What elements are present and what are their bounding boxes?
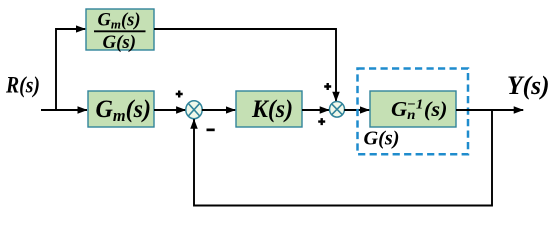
summing junction 1: [186, 101, 202, 119]
block Gm(s): [88, 91, 154, 127]
wire summing junction 1 to K(s): [202, 109, 236, 111]
svg-text:K(s): K(s): [251, 96, 293, 123]
svg-text:Y(s): Y(s): [507, 71, 550, 100]
block K(s): [236, 91, 302, 127]
minus sign at summing junction 1: [207, 129, 215, 132]
wire feedforward block to summing junction 2: [154, 29, 336, 101]
summing junction 2: [330, 102, 345, 118]
plus sign below-left summing junction 2: [318, 118, 325, 125]
wire summing junction 2 to Gn^-1(s): [344, 109, 369, 111]
block Gn^-1(s): [370, 91, 456, 127]
wire input R(s) to Gm(s): [41, 109, 87, 111]
wire K(s) to summing junction 2: [302, 109, 329, 111]
wire feedback loop: [194, 110, 492, 206]
svg-text:G(s): G(s): [364, 128, 400, 150]
plus sign above summing junction 2: [324, 83, 331, 90]
wire Gm(s) to summing junction 1: [154, 109, 186, 111]
wire branch up from input to feedforward block: [56, 29, 85, 110]
block Gm(s)/G(s) feedforward: [86, 9, 154, 53]
dashed box G(s) plant: [358, 69, 469, 155]
wire output Y(s): [456, 109, 523, 111]
svg-text:G(s): G(s): [103, 33, 137, 53]
plus sign at summing junction 1: [176, 91, 183, 98]
svg-text:R(s): R(s): [5, 73, 40, 98]
